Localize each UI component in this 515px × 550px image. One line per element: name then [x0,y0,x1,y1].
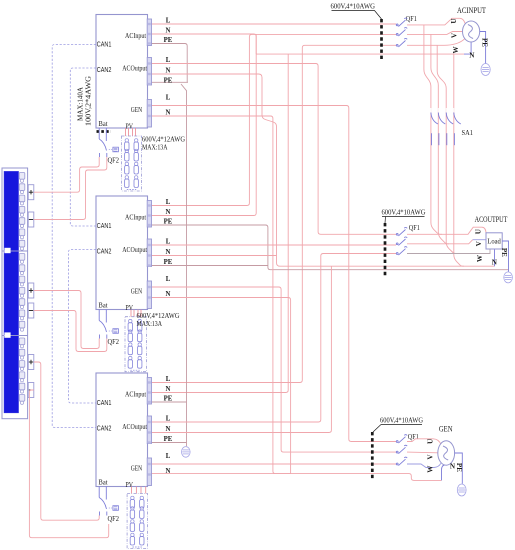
battery bank enclosure [2,168,28,419]
svg-text:U: U [475,228,483,234]
wire QF1 to generator W [407,463,441,467]
svg-text:W: W [452,45,460,53]
svg-text:Bat: Bat [99,119,109,128]
wire battery3 negative to QF2 [29,390,108,538]
svg-text:PE: PE [164,436,173,443]
svg-text:L: L [166,453,171,460]
svg-text:CAN2: CAN2 [97,246,112,255]
svg-text:L: L [166,376,171,383]
battery section 2 negative terminal [28,303,34,318]
svg-text:L: L [166,238,171,245]
svg-text:V: V [475,240,483,246]
wire battery3 positive to QF2 [34,362,99,520]
svg-text:L: L [166,57,171,64]
svg-text:QF1: QF1 [409,223,420,232]
wire PE source to earth [480,32,486,64]
wire PE generator to earth [455,453,463,484]
wire PE module3 ACOutput PE join [152,442,187,444]
svg-text:V: V [450,32,458,38]
battery section divider 2 [2,335,28,337]
svg-text:100V,2*4AWG: 100V,2*4AWG [84,76,93,126]
svg-text:PE: PE [164,218,173,225]
svg-text:CAN1: CAN1 [97,221,112,230]
breaker QF2 module2 trip unit [113,329,119,334]
battery stack blue body [4,172,18,413]
svg-text:600V,4*10AWG: 600V,4*10AWG [382,208,426,217]
svg-text:ACINPUT: ACINPUT [457,6,486,15]
svg-text:MAX:13A: MAX:13A [137,319,163,328]
svg-text:ACOutput: ACOutput [122,422,148,431]
breaker QF2 module2 pole A [99,310,106,339]
wire bypass W through SA1 [437,45,457,253]
PV array boundary module2 [125,317,146,372]
PV array boundary module1 [122,136,142,191]
wire QF1 to load U [407,227,486,234]
svg-text:Bat: Bat [99,478,109,487]
svg-text:N: N [166,468,171,475]
svg-text:PV: PV [126,303,134,312]
svg-text:N: N [450,463,456,471]
cable bundle dashed marker AC input [380,19,383,60]
PV string cells module2 [128,323,132,332]
svg-text:W: W [476,254,484,262]
svg-text:ACOutput: ACOutput [122,64,148,73]
breaker QF2 module1 trip unit [113,147,119,152]
wire PE module1 ACOutput PE row [152,81,189,83]
svg-text:ACOUTPUT: ACOUTPUT [475,215,508,224]
svg-text:N: N [166,67,171,74]
svg-text:MAX:13A: MAX:13A [142,142,168,151]
wire QF1 to generator U [407,439,441,445]
svg-text:ACInput: ACInput [125,213,147,222]
wire battery2 positive to QF2 [34,291,99,349]
PV string cells module3 [130,500,134,509]
wire ACInput-N module3 riser [152,54,289,392]
svg-text:N: N [166,27,171,34]
svg-text:PE: PE [164,77,173,84]
wire PV leads module1 [125,128,127,136]
wire PV leads module2 [130,310,132,317]
wire GEN-L phase U module1 drop [152,106,397,442]
terminal pins module2 [148,204,151,206]
ground earth generator [457,484,466,496]
svg-text:U: U [426,438,434,444]
wire GEN-L phase V module2 drop [152,287,397,452]
svg-text:N: N [166,426,171,433]
svg-text:QF2: QF2 [108,514,120,523]
breaker QF2 module1 pole A [99,128,106,157]
svg-text:QF1: QF1 [408,432,419,441]
svg-text:Bat: Bat [99,301,109,310]
svg-text:ACInput: ACInput [125,390,147,399]
svg-text:N: N [166,209,171,216]
wire ACInput-L phase V module2 riser [152,34,397,205]
svg-text:PE: PE [480,38,488,47]
battery section divider 1 [2,250,28,252]
wire GEN-N module2 drop [152,298,291,474]
PV array boundary module3 [127,494,147,549]
wire QF1 to load V [407,240,473,244]
svg-text:N: N [166,291,171,298]
wire QF1 to generator V [407,451,438,454]
wire N to load [494,249,496,266]
terminal block GEN module3 [147,458,151,486]
terminal block ACInput module1 [147,19,151,46]
terminal block ACOutput module1 [147,58,151,86]
wire bypass V through SA1 [431,34,449,243]
ground earth of PE bus [182,447,191,458]
wire QF1 to source W [407,39,465,46]
svg-text:L: L [166,276,171,283]
battery section 1 negative terminal [28,212,34,227]
wire CAN bus module1 CAN1 down to module3 (dashed) [52,45,97,428]
svg-text:600V,4*10AWG: 600V,4*10AWG [380,416,423,425]
svg-text:GEN: GEN [131,105,143,114]
inverter module U3 [96,373,148,487]
wire ACOutput-N bus module1 drop [152,74,495,266]
wire QF1 to source V [407,32,463,35]
wire ACOutput-L phase W module3 riser [152,254,397,423]
svg-text:600V,4*10AWG: 600V,4*10AWG [331,2,376,11]
svg-text:CAN2: CAN2 [97,65,112,74]
terminal pins module1 [148,23,151,25]
terminal block ACInput module2 [147,201,151,228]
wire ACInput-L phase U module1 to QF1 [152,23,397,25]
svg-text:V: V [426,454,434,460]
svg-text:CAN2: CAN2 [97,423,112,432]
battery cells column [19,173,25,180]
breaker QF2 module3 pole A [99,487,106,516]
svg-text:N: N [166,386,171,393]
wire bypass N through SA1 [454,54,464,266]
svg-text:L: L [166,94,171,101]
svg-text:N: N [492,259,498,267]
wire QF1 to source U [407,18,465,25]
wire bypass U ACINPUT through SA1 to ACOUTPUT [424,25,442,234]
svg-text:GEN: GEN [131,287,143,296]
PV string cells module1 [125,142,129,151]
wire GEN-N bus module1 drop [152,116,442,480]
svg-text:PE: PE [164,395,173,402]
terminal block GEN module1 [147,100,151,128]
wire PV leads module3 [131,487,133,494]
terminal block ACOutput module3 [147,416,151,444]
wire ACOutput-L phase V module2 [152,244,397,246]
wire battery2 negative to QF2 [34,311,107,352]
svg-text:PE: PE [164,259,173,266]
battery section 1 positive terminal [28,185,34,200]
svg-text:PE: PE [455,463,463,472]
wire PE module2 ACOutput PE join [152,265,268,267]
svg-text:GEN: GEN [131,464,143,473]
wire generator N riser [442,465,445,480]
battery section 3 negative terminal [28,383,34,398]
wire CAN module1 CAN2 to module2 CAN1 (dashed) [70,68,96,226]
inverter module U2 [96,196,148,310]
wire PE module2 ACInput PE to AC output PE [152,225,509,270]
svg-text:U: U [450,18,458,24]
svg-text:PE: PE [500,248,508,257]
switch SA1 four poles [431,113,438,146]
wire GEN-N module3 join [152,473,291,475]
svg-text:CAN1: CAN1 [97,39,112,48]
terminal block GEN module2 [147,281,151,309]
wire battery1 positive to QF2 [34,157,99,192]
svg-text:QF1: QF1 [406,14,417,23]
battery section 2 positive terminal [28,283,34,298]
svg-text:PE: PE [164,37,173,44]
wire ACOutput-N module3 riser [152,266,332,432]
wire PE module1 ACInput PE drop [152,44,188,83]
svg-text:CAN1: CAN1 [97,398,112,407]
svg-text:W: W [427,465,435,473]
svg-text:GEN: GEN [439,425,453,434]
breaker QF2 module3 trip unit [113,506,119,511]
svg-text:ACOutput: ACOutput [122,245,148,254]
wire source N elbow [464,42,471,54]
wire PE bus jog and main drop to earth [181,84,187,446]
wire QF1 to load W [407,249,490,254]
terminal block ACInput module3 [147,378,151,405]
wire ACOutput-N module2 join [152,255,277,257]
svg-text:L: L [166,415,171,422]
ground earth AC input [481,64,490,76]
battery cable bundle marker module1 [97,130,112,133]
breaker QF2 module3 pole B [105,487,108,516]
terminal pins module3 [148,381,151,383]
cable bundle dashed marker AC output [384,223,387,276]
cable bundle dashed marker generator [371,432,374,479]
wire ACInput-L phase W module3 riser [152,45,397,382]
svg-text:ACInput: ACInput [125,31,147,40]
wire ACInput-N bus module1-module2 [152,34,257,216]
svg-text:N: N [469,52,475,60]
svg-text:QF2: QF2 [108,337,120,346]
battery section 3 positive terminal [28,355,34,370]
wire ACOutput-L phase U module1 drop [152,64,397,235]
svg-text:PV: PV [126,480,134,489]
wire PE module3 ACInput PE join [152,401,187,403]
svg-text:N: N [166,249,171,256]
inverter module U1 [96,15,148,129]
svg-text:SA1: SA1 [462,128,474,137]
wire GEN-L phase W module3 [152,463,397,465]
svg-text:L: L [166,199,171,206]
svg-text:Load: Load [487,239,501,246]
wire CAN module2 CAN2 to module3 CAN1 (dashed) [69,250,97,404]
svg-text:L: L [166,17,171,24]
wire PE load to earth [502,241,508,272]
breaker QF2 module2 pole B [105,310,108,339]
terminal block ACOutput module2 [147,239,151,267]
svg-text:QF2: QF2 [108,156,120,165]
ground earth AC output [504,272,513,283]
breaker QF2 module1 pole B [105,128,108,157]
wire battery1 negative to QF2 [34,157,107,220]
svg-text:N: N [166,109,171,116]
wire ACInput-N trunk to source N [255,34,257,54]
